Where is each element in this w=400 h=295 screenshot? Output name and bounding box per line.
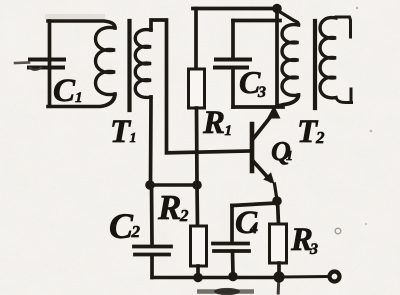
svg-text:R: R xyxy=(157,188,181,227)
svg-text:2: 2 xyxy=(179,206,189,225)
svg-text:1: 1 xyxy=(225,123,233,139)
svg-text:C: C xyxy=(109,206,134,246)
svg-text:3: 3 xyxy=(257,84,266,101)
svg-text:3: 3 xyxy=(309,241,318,258)
svg-text:C: C xyxy=(53,73,76,109)
svg-text:4: 4 xyxy=(249,220,258,237)
svg-text:1: 1 xyxy=(75,90,83,106)
svg-text:R: R xyxy=(202,105,225,141)
svg-text:2: 2 xyxy=(131,222,141,241)
svg-text:1: 1 xyxy=(286,149,293,164)
svg-text:1: 1 xyxy=(130,131,137,146)
svg-text:2: 2 xyxy=(315,128,325,147)
